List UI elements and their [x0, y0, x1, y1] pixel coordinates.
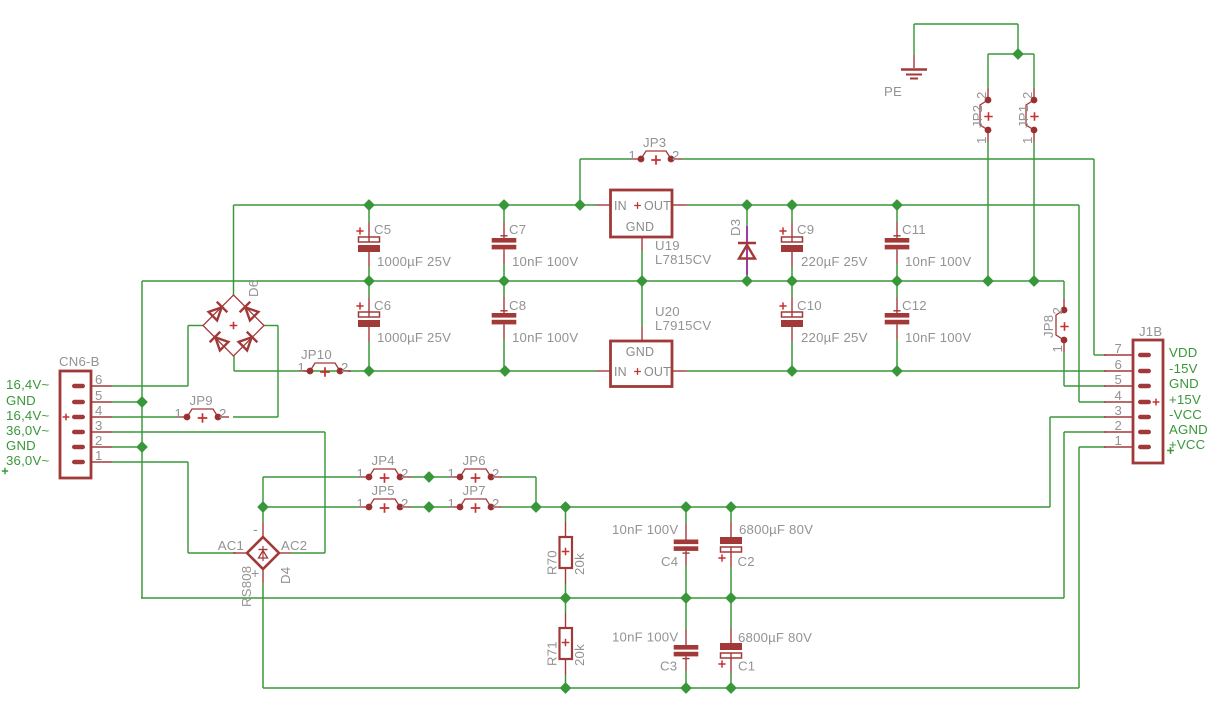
svg-text:1: 1 [174, 406, 182, 421]
svg-text:AGND: AGND [1169, 422, 1208, 437]
svg-text:1: 1 [447, 466, 455, 481]
svg-text:JP6: JP6 [463, 453, 486, 468]
svg-text:D3: D3 [728, 219, 743, 236]
svg-text:36,0V~: 36,0V~ [6, 453, 49, 468]
svg-text:6: 6 [1114, 357, 1122, 372]
svg-text:1: 1 [1050, 345, 1065, 353]
svg-text:1: 1 [974, 136, 989, 144]
svg-text:PE: PE [884, 84, 902, 99]
svg-text:JP10: JP10 [301, 347, 332, 362]
svg-text:6: 6 [95, 372, 103, 387]
svg-text:1: 1 [356, 466, 364, 481]
svg-text:OUT: OUT [644, 365, 671, 379]
svg-text:L7815CV: L7815CV [655, 252, 711, 267]
svg-text:AC2: AC2 [281, 538, 307, 553]
svg-text:C10: C10 [797, 298, 822, 313]
svg-text:JP9: JP9 [190, 393, 213, 408]
svg-text:C8: C8 [509, 298, 526, 313]
svg-text:220µF 25V: 220µF 25V [801, 330, 868, 345]
svg-text:GND: GND [1169, 376, 1199, 391]
svg-text:20k: 20k [572, 553, 587, 575]
svg-text:3: 3 [1114, 403, 1122, 418]
svg-text:GND: GND [626, 220, 654, 234]
svg-text:5: 5 [95, 388, 103, 403]
svg-text:2: 2 [492, 466, 500, 481]
svg-text:2: 2 [401, 466, 409, 481]
svg-text:JP1: JP1 [1016, 105, 1031, 128]
svg-text:1: 1 [297, 360, 305, 375]
svg-text:C9: C9 [797, 222, 814, 237]
svg-text:10nF 100V: 10nF 100V [905, 330, 971, 345]
svg-text:7: 7 [1114, 341, 1122, 356]
svg-text:GND: GND [626, 345, 654, 359]
svg-text:JP5: JP5 [372, 483, 395, 498]
svg-text:C12: C12 [902, 298, 927, 313]
svg-text:220µF 25V: 220µF 25V [801, 254, 868, 269]
svg-text:2: 2 [1050, 307, 1065, 315]
svg-text:JP7: JP7 [463, 483, 486, 498]
svg-text:16,4V~: 16,4V~ [6, 408, 49, 423]
svg-text:C2: C2 [738, 554, 755, 569]
svg-text:1000µF 25V: 1000µF 25V [377, 254, 451, 269]
svg-text:JP4: JP4 [372, 453, 395, 468]
svg-text:1: 1 [1020, 136, 1035, 144]
svg-text:JP3: JP3 [643, 135, 666, 150]
svg-text:10nF 100V: 10nF 100V [905, 254, 971, 269]
svg-text:GND: GND [6, 393, 36, 408]
svg-text:C7: C7 [509, 222, 526, 237]
svg-text:10nF 100V: 10nF 100V [612, 522, 678, 537]
svg-text:JP2: JP2 [970, 105, 985, 128]
svg-text:2: 2 [341, 360, 349, 375]
svg-text:C3: C3 [660, 659, 677, 674]
svg-text:3: 3 [95, 418, 103, 433]
svg-text:4: 4 [1114, 388, 1122, 403]
svg-text:2: 2 [1114, 418, 1122, 433]
svg-text:C4: C4 [661, 554, 678, 569]
svg-text:R70: R70 [545, 550, 560, 575]
svg-text:6800µF 80V: 6800µF 80V [739, 522, 813, 537]
svg-text:1: 1 [628, 148, 636, 163]
svg-text:1: 1 [447, 496, 455, 511]
svg-text:-15V: -15V [1169, 361, 1198, 376]
svg-text:AC1: AC1 [218, 538, 244, 553]
svg-text:2: 2 [1020, 91, 1035, 99]
svg-text:1000µF 25V: 1000µF 25V [377, 330, 451, 345]
svg-text:10nF 100V: 10nF 100V [512, 254, 578, 269]
svg-text:4: 4 [95, 403, 103, 418]
svg-text:IN: IN [614, 365, 627, 379]
svg-text:JP8: JP8 [1041, 315, 1056, 338]
svg-text:16,4V~: 16,4V~ [6, 377, 49, 392]
svg-text:1: 1 [356, 496, 364, 511]
svg-text:+15V: +15V [1169, 392, 1201, 407]
svg-text:L7915CV: L7915CV [655, 318, 711, 333]
svg-text:-: - [253, 521, 258, 537]
svg-text:J1B: J1B [1139, 324, 1162, 339]
svg-text:-VCC: -VCC [1169, 407, 1202, 422]
svg-text:36,0V~: 36,0V~ [6, 423, 49, 438]
svg-text:C1: C1 [738, 659, 755, 674]
svg-text:RS808: RS808 [239, 566, 254, 607]
svg-text:+VCC: +VCC [1169, 437, 1206, 452]
svg-text:2: 2 [219, 406, 227, 421]
svg-text:CN6-B: CN6-B [59, 354, 100, 369]
svg-text:5: 5 [1114, 372, 1122, 387]
svg-text:2: 2 [95, 433, 103, 448]
svg-text:10nF 100V: 10nF 100V [612, 630, 678, 645]
svg-text:U20: U20 [655, 304, 680, 319]
svg-text:U19: U19 [655, 238, 680, 253]
svg-text:D6: D6 [246, 280, 261, 297]
svg-text:1: 1 [95, 448, 103, 463]
svg-text:C5: C5 [374, 222, 391, 237]
svg-text:D4: D4 [278, 567, 293, 584]
svg-text:2: 2 [974, 91, 989, 99]
svg-text:10nF 100V: 10nF 100V [512, 330, 578, 345]
svg-text:R71: R71 [545, 641, 560, 666]
svg-text:VDD: VDD [1169, 345, 1197, 360]
svg-text:6800µF 80V: 6800µF 80V [738, 630, 812, 645]
svg-text:2: 2 [672, 148, 680, 163]
svg-text:IN: IN [614, 199, 627, 213]
svg-text:1: 1 [1114, 433, 1122, 448]
svg-text:2: 2 [401, 496, 409, 511]
svg-text:GND: GND [6, 438, 36, 453]
svg-text:C6: C6 [374, 298, 391, 313]
svg-text:2: 2 [492, 496, 500, 511]
svg-text:C11: C11 [902, 222, 926, 237]
svg-text:OUT: OUT [644, 199, 671, 213]
svg-text:20k: 20k [572, 644, 587, 666]
